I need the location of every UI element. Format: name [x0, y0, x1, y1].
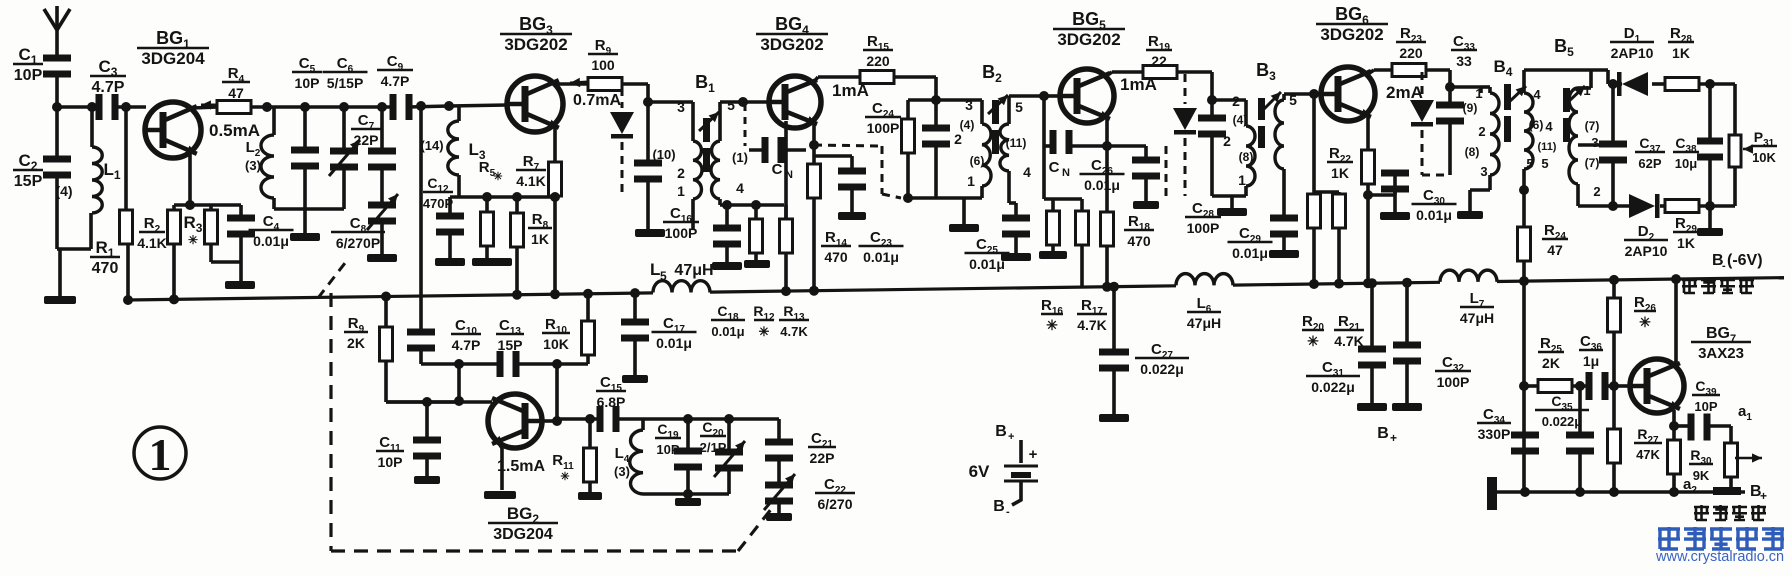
- svg-text:2: 2: [677, 165, 685, 181]
- svg-text:1: 1: [1583, 83, 1590, 98]
- svg-text:(4): (4): [1233, 113, 1248, 127]
- svg-text:2: 2: [1478, 124, 1485, 139]
- svg-text:15P: 15P: [498, 337, 523, 353]
- svg-text:L: L: [650, 260, 660, 279]
- svg-text:470: 470: [92, 260, 119, 277]
- svg-text:4: 4: [1023, 164, 1031, 180]
- svg-text:2: 2: [1223, 133, 1231, 149]
- svg-text:4: 4: [736, 180, 744, 196]
- svg-text:100P: 100P: [1187, 220, 1220, 236]
- svg-text:4.1K: 4.1K: [137, 235, 167, 251]
- svg-text:(4): (4): [960, 118, 975, 132]
- svg-text:2AP10: 2AP10: [1611, 45, 1654, 61]
- svg-text:+: +: [1008, 431, 1014, 443]
- svg-text:1K: 1K: [531, 231, 549, 247]
- svg-text:4.7P: 4.7P: [452, 337, 481, 353]
- svg-text:6.8P: 6.8P: [597, 394, 626, 410]
- svg-text:(6): (6): [1529, 118, 1544, 132]
- svg-text:(3): (3): [245, 158, 261, 173]
- svg-text:0.01μ: 0.01μ: [656, 335, 692, 351]
- svg-text:+: +: [1029, 446, 1038, 463]
- svg-text:47μH: 47μH: [1460, 310, 1494, 326]
- svg-text:B: B: [995, 423, 1007, 440]
- svg-text:0.022μ: 0.022μ: [1140, 361, 1184, 377]
- svg-text:5: 5: [660, 269, 667, 283]
- svg-text:10K: 10K: [1752, 150, 1776, 165]
- svg-text:10P: 10P: [295, 75, 320, 91]
- svg-text:(3): (3): [614, 464, 630, 479]
- svg-text:4.1K: 4.1K: [516, 173, 546, 189]
- svg-text:220: 220: [1399, 45, 1423, 61]
- svg-text:(14): (14): [420, 138, 443, 153]
- svg-text:10P: 10P: [656, 442, 679, 457]
- svg-text:1: 1: [1475, 86, 1482, 101]
- svg-text:0.022μ: 0.022μ: [1311, 379, 1355, 395]
- svg-text:10P: 10P: [1694, 399, 1717, 414]
- svg-text:100P: 100P: [1437, 374, 1470, 390]
- svg-text:47μH: 47μH: [674, 262, 713, 279]
- svg-text:47: 47: [1547, 242, 1563, 258]
- svg-text:C: C: [772, 161, 783, 178]
- svg-text:(11): (11): [1538, 141, 1557, 153]
- svg-text:47μH: 47μH: [1187, 315, 1221, 331]
- svg-text:(10): (10): [652, 147, 675, 162]
- svg-text:0.01μ: 0.01μ: [711, 324, 744, 339]
- svg-text:1: 1: [149, 429, 172, 480]
- svg-text:0.01μ: 0.01μ: [1416, 207, 1452, 223]
- svg-text:3DG202: 3DG202: [760, 35, 823, 54]
- svg-text:3: 3: [1591, 135, 1598, 150]
- svg-text:0.01μ: 0.01μ: [863, 249, 899, 265]
- svg-text:(4): (4): [55, 183, 72, 199]
- svg-text:-: -: [1722, 260, 1726, 272]
- svg-text:(6): (6): [970, 154, 985, 168]
- svg-text:22P: 22P: [810, 450, 835, 466]
- svg-text:470: 470: [1127, 233, 1151, 249]
- svg-text:33: 33: [1456, 53, 1472, 69]
- svg-text:+: +: [1390, 431, 1397, 445]
- svg-text:2/1P: 2/1P: [700, 440, 727, 455]
- svg-text:2mA: 2mA: [1386, 83, 1423, 102]
- svg-text:(11): (11): [1006, 136, 1027, 150]
- svg-text:470P: 470P: [423, 196, 454, 211]
- svg-text:5/15P: 5/15P: [327, 75, 364, 91]
- svg-text:3DG202: 3DG202: [1057, 30, 1120, 49]
- svg-text:10P: 10P: [14, 67, 43, 84]
- svg-text:10K: 10K: [543, 336, 569, 352]
- svg-text:330P: 330P: [1478, 426, 1511, 442]
- svg-text:1: 1: [677, 183, 685, 199]
- svg-text:+: +: [1760, 489, 1767, 503]
- svg-text:0.01μ: 0.01μ: [1232, 245, 1268, 261]
- svg-text:470: 470: [824, 249, 848, 265]
- svg-text:0.5mA: 0.5mA: [209, 121, 260, 140]
- svg-text:0.01μ: 0.01μ: [1084, 177, 1120, 193]
- svg-text:6V: 6V: [969, 462, 990, 481]
- svg-text:4: 4: [1545, 119, 1553, 134]
- svg-text:1μ: 1μ: [1583, 353, 1599, 369]
- svg-text:2: 2: [954, 131, 962, 147]
- svg-text:47: 47: [228, 85, 244, 101]
- svg-text:9K: 9K: [1693, 468, 1710, 483]
- svg-text:4.7P: 4.7P: [92, 79, 125, 96]
- svg-text:(8): (8): [1239, 150, 1254, 164]
- svg-text:3DG204: 3DG204: [493, 526, 553, 543]
- svg-text:0.7mA: 0.7mA: [573, 92, 621, 109]
- svg-text:4: 4: [1533, 87, 1541, 102]
- svg-text:(7): (7): [1585, 119, 1600, 133]
- svg-text:4.7K: 4.7K: [780, 324, 808, 339]
- svg-text:6/270: 6/270: [817, 496, 852, 512]
- svg-text:1: 1: [967, 173, 975, 189]
- svg-text:B: B: [993, 498, 1005, 515]
- svg-text:22P: 22P: [354, 132, 379, 148]
- svg-text:N: N: [1062, 167, 1070, 179]
- svg-text:-: -: [1006, 506, 1010, 518]
- svg-text:1K: 1K: [1331, 165, 1349, 181]
- svg-text:B: B: [1377, 425, 1389, 442]
- svg-text:6/270P: 6/270P: [336, 235, 380, 251]
- svg-text:2: 2: [1593, 184, 1600, 199]
- svg-text:22: 22: [1151, 53, 1167, 69]
- svg-text:2K: 2K: [1542, 355, 1560, 371]
- svg-text:4.7K: 4.7K: [1077, 317, 1107, 333]
- svg-text:1: 1: [1238, 172, 1246, 188]
- svg-text:62P: 62P: [1638, 156, 1661, 171]
- svg-text:(8): (8): [1465, 145, 1480, 159]
- svg-text:C: C: [1049, 159, 1060, 176]
- svg-text:3DG204: 3DG204: [141, 49, 205, 68]
- svg-text:10P: 10P: [378, 454, 403, 470]
- svg-text:3: 3: [1480, 164, 1487, 179]
- svg-text:3: 3: [677, 99, 685, 115]
- svg-text:5: 5: [727, 97, 735, 113]
- svg-text:220: 220: [866, 53, 890, 69]
- svg-text:5: 5: [1541, 156, 1548, 171]
- svg-text:47K: 47K: [1636, 447, 1660, 462]
- svg-text:✳: ✳: [1639, 314, 1651, 330]
- svg-text:✳: ✳: [188, 233, 198, 247]
- svg-text:1K: 1K: [1672, 45, 1690, 61]
- svg-text:0.022μ: 0.022μ: [1542, 414, 1583, 429]
- svg-text:3: 3: [965, 97, 973, 113]
- svg-text:✳: ✳: [560, 471, 569, 483]
- svg-text:4.7P: 4.7P: [381, 73, 410, 89]
- svg-text:✳: ✳: [1046, 317, 1058, 333]
- svg-text:100: 100: [591, 57, 615, 73]
- svg-text:3DG202: 3DG202: [504, 35, 567, 54]
- svg-text:(9): (9): [1463, 101, 1478, 115]
- svg-text:3DG202: 3DG202: [1320, 25, 1383, 44]
- svg-text:5: 5: [1526, 156, 1533, 171]
- svg-text:15P: 15P: [14, 173, 43, 190]
- svg-text:100P: 100P: [867, 120, 900, 136]
- svg-text:(-6V): (-6V): [1727, 252, 1763, 269]
- svg-text:1K: 1K: [1677, 235, 1695, 251]
- svg-text:10μ: 10μ: [1675, 156, 1697, 171]
- svg-text:2: 2: [1232, 93, 1240, 109]
- svg-text:(1): (1): [732, 150, 748, 165]
- svg-text:2K: 2K: [347, 335, 365, 351]
- svg-text:✳: ✳: [493, 171, 502, 183]
- svg-text:1.5mA: 1.5mA: [497, 458, 545, 475]
- svg-text:3AX23: 3AX23: [1698, 345, 1744, 362]
- svg-text:0.01μ: 0.01μ: [969, 256, 1005, 272]
- svg-text:✳: ✳: [759, 324, 770, 339]
- svg-text:5: 5: [1015, 99, 1023, 115]
- svg-text:✳: ✳: [1307, 333, 1319, 349]
- svg-text:www.crystalradio.cn: www.crystalradio.cn: [1655, 549, 1784, 565]
- svg-text:2AP10: 2AP10: [1625, 243, 1668, 259]
- svg-text:0.01μ: 0.01μ: [253, 233, 289, 249]
- svg-text:(7): (7): [1585, 156, 1600, 170]
